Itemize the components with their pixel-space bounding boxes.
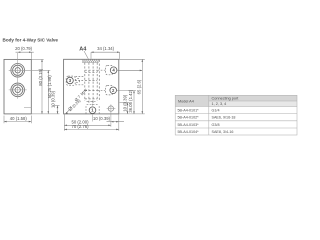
svg-text:Connecting port: Connecting port [212, 97, 240, 101]
port 2 hidden drill [98, 86, 113, 95]
right side witness lines [116, 59, 145, 114]
svg-text:36.05 (1.42): 36.05 (1.42) [128, 89, 133, 113]
mounting hole [108, 106, 113, 111]
dimension 40 (1.58) [4, 116, 31, 124]
port 1 number [89, 107, 96, 114]
dimension 65 (2.6) [141, 59, 143, 114]
dimension 50 (2.00) bottom [64, 124, 111, 126]
svg-text:65 (2.6): 65 (2.6) [136, 79, 141, 94]
svg-text:34 (1.34): 34 (1.34) [97, 46, 115, 51]
svg-text:G1/4: G1/4 [212, 108, 220, 112]
svg-text:1, 2, 3, 4: 1, 2, 3, 4 [212, 102, 227, 106]
bottom witness lines [64, 114, 119, 131]
diagonal callout [65, 88, 88, 114]
port 4 hidden drill [98, 65, 113, 74]
svg-text:80 (3.15): 80 (3.15) [38, 68, 43, 86]
A4 leader [84, 51, 88, 59]
port 2 number [110, 87, 117, 94]
body outline main view [64, 59, 119, 114]
svg-text:Body for 4-Way SIC Valve: Body for 4-Way SIC Valve [3, 38, 59, 43]
svg-text:70 (2.76): 70 (2.76) [71, 124, 89, 129]
port 1 hidden drill [86, 101, 99, 114]
svg-text:Model A4: Model A4 [178, 99, 194, 103]
svg-text:5B-A4-0102*: 5B-A4-0102* [178, 116, 200, 120]
thread zigzag at cavity opening [82, 60, 99, 63]
svg-text:G3/8: G3/8 [212, 123, 220, 127]
svg-text:SAE6, 9/16-18: SAE6, 9/16-18 [212, 116, 236, 120]
svg-text:10 (0.39): 10 (0.39) [93, 116, 111, 121]
port 3 hidden drill [66, 76, 84, 85]
dimension 10 (0.39) right [127, 103, 129, 114]
dimension 34 (1.34) [91, 52, 120, 59]
table grid [175, 95, 297, 135]
svg-text:SAE8, 3/4-16: SAE8, 3/4-16 [212, 130, 234, 134]
port 4 number [110, 67, 117, 74]
dimension 36.05 (1.42) [133, 91, 135, 114]
dimension 70 (2.76) bottom [64, 128, 119, 130]
body outline left view [4, 59, 31, 114]
svg-text:10 (0.39): 10 (0.39) [51, 90, 56, 108]
dimension 10 (0.39) vertical left view [31, 106, 59, 114]
table text [178, 97, 240, 134]
port circle bottom left view [11, 83, 25, 97]
cavity hidden lines [85, 60, 100, 104]
dimension 50.25 (1.98) vertical [47, 70, 49, 114]
svg-text:5B-A4-0103*: 5B-A4-0103* [178, 123, 200, 127]
svg-text:5B-A4-0101*: 5B-A4-0101* [178, 108, 200, 112]
svg-text:A4: A4 [79, 46, 87, 52]
center lines left view [9, 53, 51, 108]
svg-text:20 (0.79): 20 (0.79) [15, 46, 33, 51]
svg-text:40 (1.58): 40 (1.58) [10, 116, 28, 121]
port4 leader to right [118, 69, 143, 71]
dimension 80 (3.15) vertical [31, 59, 43, 114]
table header fill [175, 95, 297, 101]
dimension 10 (0.39) bottom [107, 121, 125, 123]
dimension 20 (0.79) [16, 52, 34, 59]
svg-text:10 (0.39): 10 (0.39) [123, 94, 128, 112]
svg-text:5B-A4-0104*: 5B-A4-0104* [178, 130, 200, 134]
port 3 number [67, 77, 74, 84]
port circle top left view [11, 64, 25, 78]
